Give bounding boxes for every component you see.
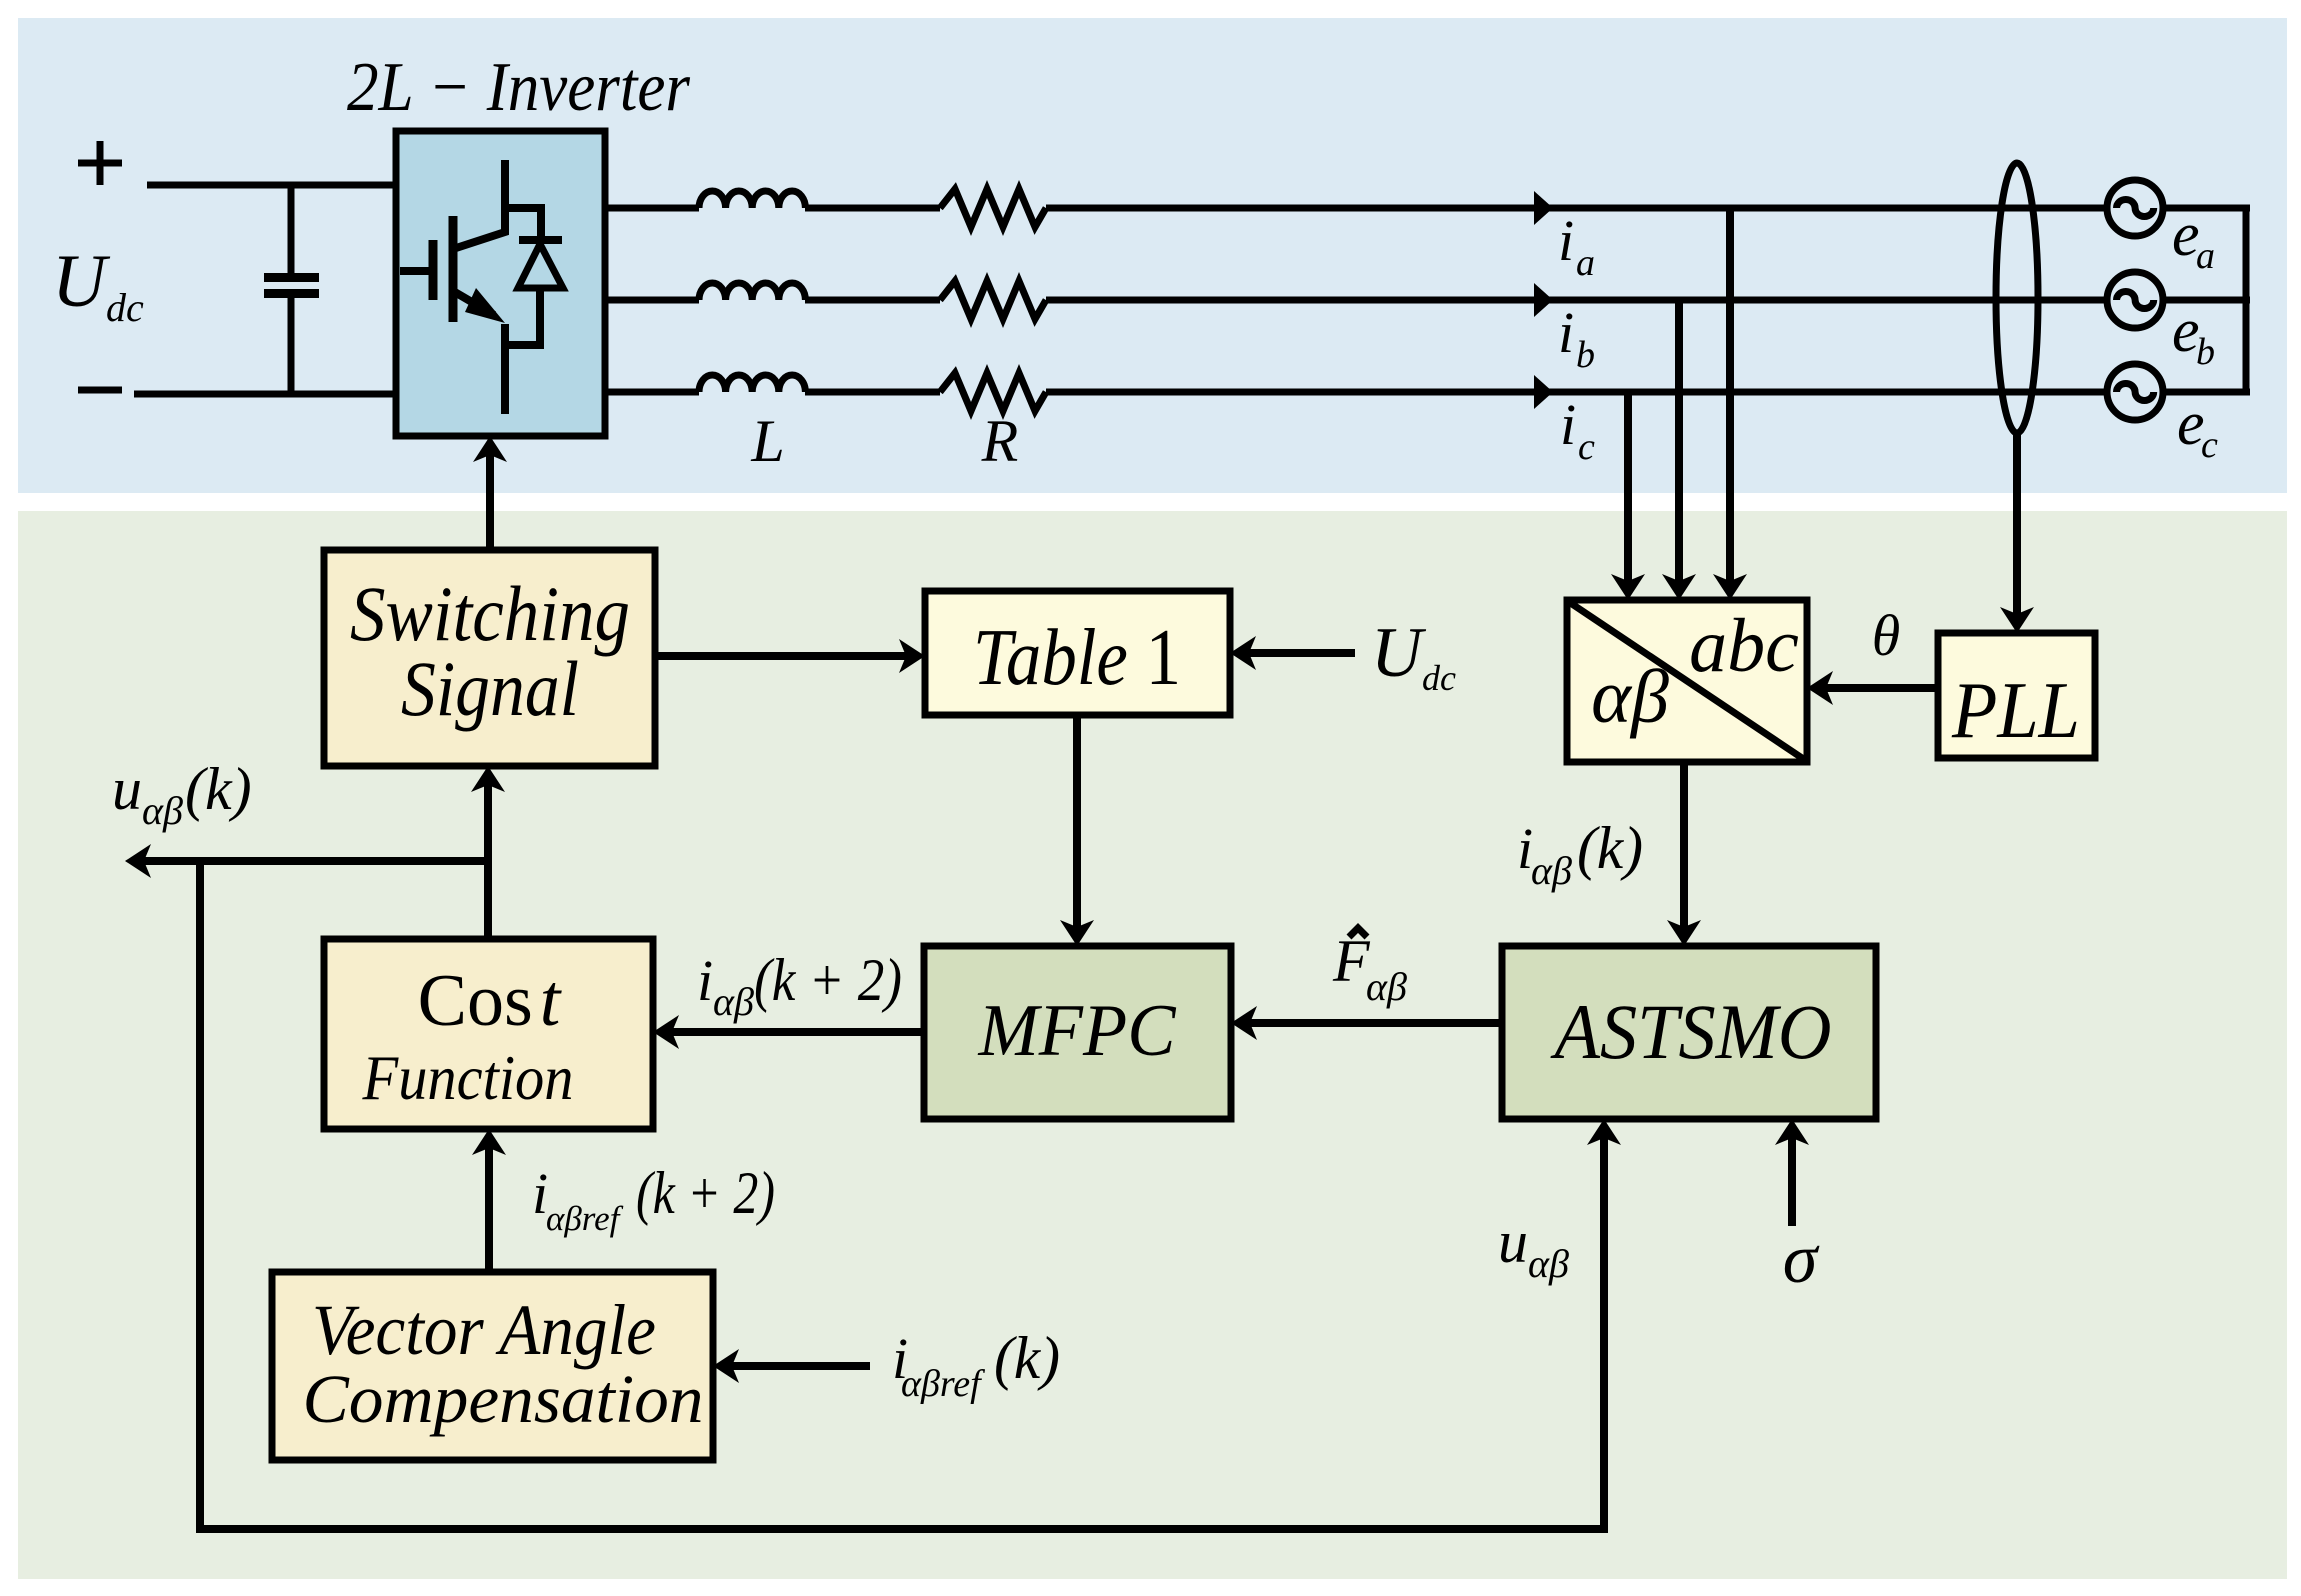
label ec (2177, 390, 2218, 466)
AC source ec (2107, 364, 2163, 420)
svg-text:αβ: αβ (1366, 964, 1407, 1009)
resistor R phase c (940, 373, 1046, 411)
wire switching signal to table1 (655, 639, 925, 673)
label Udc input (1371, 614, 1456, 698)
current arrow ia (1534, 191, 1553, 225)
svg-text:PLL: PLL (1951, 667, 2080, 755)
AC source eb (2107, 272, 2163, 328)
label i_alphabeta(k+2) (697, 947, 902, 1024)
svg-text:(k): (k) (185, 756, 252, 822)
svg-text:(k): (k) (1577, 815, 1643, 881)
wire phase b mid (805, 297, 940, 304)
svg-text:b: b (2196, 331, 2215, 373)
wire phase c from inverter (605, 389, 699, 396)
wire vector angle compensation to cost function (472, 1129, 506, 1272)
svg-text:U: U (52, 240, 111, 323)
svg-text:Cost: Cost (418, 960, 563, 1042)
label L (750, 408, 784, 474)
svg-text:αβ: αβ (713, 979, 754, 1024)
wire phase c mid (805, 389, 940, 396)
svg-text:b: b (1576, 334, 1595, 376)
wire phase a to grid (1046, 205, 2108, 212)
svg-text:αβ: αβ (1531, 848, 1572, 893)
label eb (2172, 297, 2215, 373)
wire phase b to grid (1046, 297, 2108, 304)
wire cost function to switching signal (471, 766, 505, 939)
measurement ellipse (1996, 163, 2038, 433)
svg-text:i: i (697, 948, 713, 1013)
wire phase b from inverter (605, 297, 699, 304)
anti-parallel diode inside inverter (505, 208, 563, 345)
wire source ea to bus (2163, 205, 2250, 212)
block PLL (1938, 633, 2095, 758)
wire table1 to MFPC (1060, 715, 1094, 946)
label u_alphabeta feedback (1498, 1209, 1569, 1286)
power circuit panel (blue) (18, 18, 2287, 493)
label ea (2172, 201, 2215, 277)
svg-text:a: a (2196, 235, 2215, 277)
wire phase a from inverter (605, 205, 699, 212)
AC source ea (2107, 180, 2163, 236)
svg-text:αβ: αβ (1591, 655, 1669, 739)
wire ASTSMO to MFPC (1231, 1006, 1502, 1040)
svg-text:a: a (1576, 242, 1595, 284)
label i_alphabetaref(k) (892, 1325, 1060, 1405)
wire MFPC to cost function (653, 1015, 924, 1049)
label u_alphabeta(k) (112, 756, 252, 833)
label ib (1558, 300, 1595, 376)
svg-text:(k + 2): (k + 2) (754, 947, 902, 1013)
svg-text:2L − Inverter: 2L − Inverter (347, 49, 691, 126)
resistor R phase b (940, 281, 1046, 319)
svg-text:c: c (2201, 424, 2218, 466)
minus terminal (78, 387, 122, 394)
current arrow ic (1534, 375, 1553, 409)
label 2L-Inverter (347, 49, 691, 126)
label Udc (52, 240, 144, 330)
svg-text:MFPC: MFPC (978, 990, 1178, 1072)
feedback wire down-right-up to ASTSMO (200, 861, 1621, 1529)
wire abc block to ASTSMO (1667, 762, 1701, 946)
block MFPC (924, 946, 1231, 1119)
svg-text:i: i (1558, 208, 1574, 273)
label F hat alphabeta (1332, 928, 1407, 1009)
wire u_alphabeta(k) output (125, 844, 488, 878)
resistor R phase a (940, 189, 1046, 227)
control panel (green) (18, 511, 2287, 1579)
svg-text:ASTSMO: ASTSMO (1550, 988, 1832, 1075)
svg-text:Table 1: Table 1 (973, 614, 1181, 702)
wire phase a mid (805, 205, 940, 212)
wire - rail (134, 391, 398, 398)
svg-text:dc: dc (1422, 658, 1456, 698)
current arrow ib (1534, 283, 1553, 317)
svg-text:Signal: Signal (401, 645, 579, 732)
capacitor C (264, 185, 319, 394)
label sigma (1783, 1221, 1820, 1298)
svg-text:(k + 2): (k + 2) (636, 1160, 775, 1226)
svg-text:Switching: Switching (350, 570, 630, 657)
wire phase c to grid (1046, 389, 2108, 396)
label theta (1872, 603, 1901, 668)
svg-text:αβ: αβ (1528, 1241, 1569, 1286)
wire switching signal to inverter (473, 436, 507, 550)
inductor L phase c (699, 375, 805, 392)
label i_alphabetaref(k+2) (532, 1160, 775, 1238)
svg-text:(k): (k) (994, 1325, 1060, 1391)
wire ellipse to PLL (2000, 433, 2034, 633)
inductor L phase a (699, 191, 805, 208)
svg-text:u: u (1498, 1209, 1528, 1275)
block Switching Signal (324, 550, 655, 766)
svg-text:abc: abc (1689, 604, 1799, 688)
label ic (1560, 392, 1595, 468)
label i_alphabeta(k) (1517, 815, 1643, 893)
svg-text:Vector Angle: Vector Angle (312, 1290, 656, 1370)
tap wire from phase c (1611, 392, 1645, 600)
tap wire from phase a (1713, 208, 1747, 600)
svg-text:θ: θ (1872, 603, 1901, 668)
wire + rail (147, 182, 398, 189)
svg-text:u: u (112, 756, 142, 822)
label R (981, 408, 1019, 474)
svg-text:dc: dc (106, 285, 144, 330)
block ASTSMO (1502, 946, 1876, 1119)
wire sigma to ASTSMO (1775, 1119, 1809, 1226)
svg-text:i: i (1560, 392, 1576, 457)
inverter box U1 (396, 131, 605, 436)
svg-text:U: U (1371, 614, 1427, 692)
svg-text:αβ: αβ (142, 788, 183, 833)
wire source ec to bus (2163, 389, 2250, 396)
wire Udc to table1 (1230, 636, 1355, 670)
wire i_alphabetaref(k) to VAC (713, 1349, 870, 1383)
svg-text:αβref: αβref (901, 1363, 985, 1405)
plus terminal (78, 141, 122, 185)
right bus wire (2243, 208, 2250, 392)
svg-text:c: c (1578, 426, 1595, 468)
wire PLL to abc block (1807, 671, 1938, 705)
svg-text:Function: Function (362, 1042, 574, 1113)
block Vector Angle Compensation (272, 1272, 713, 1460)
wire source eb to bus (2163, 297, 2250, 304)
svg-text:Compensation: Compensation (303, 1361, 704, 1437)
svg-text:R: R (981, 408, 1019, 474)
svg-text:i: i (1558, 300, 1574, 365)
block Cost Function (324, 939, 653, 1129)
inductor L phase b (699, 283, 805, 300)
svg-text:L: L (750, 408, 784, 474)
label ia (1558, 208, 1595, 284)
tap wire from phase b (1662, 300, 1696, 600)
block Table 1 (925, 591, 1230, 715)
block abc to alphabeta transform (1567, 600, 1807, 762)
svg-text:αβref: αβref (546, 1199, 624, 1238)
IGBT transistor inside inverter (400, 160, 505, 414)
svg-text:σ: σ (1783, 1221, 1820, 1298)
